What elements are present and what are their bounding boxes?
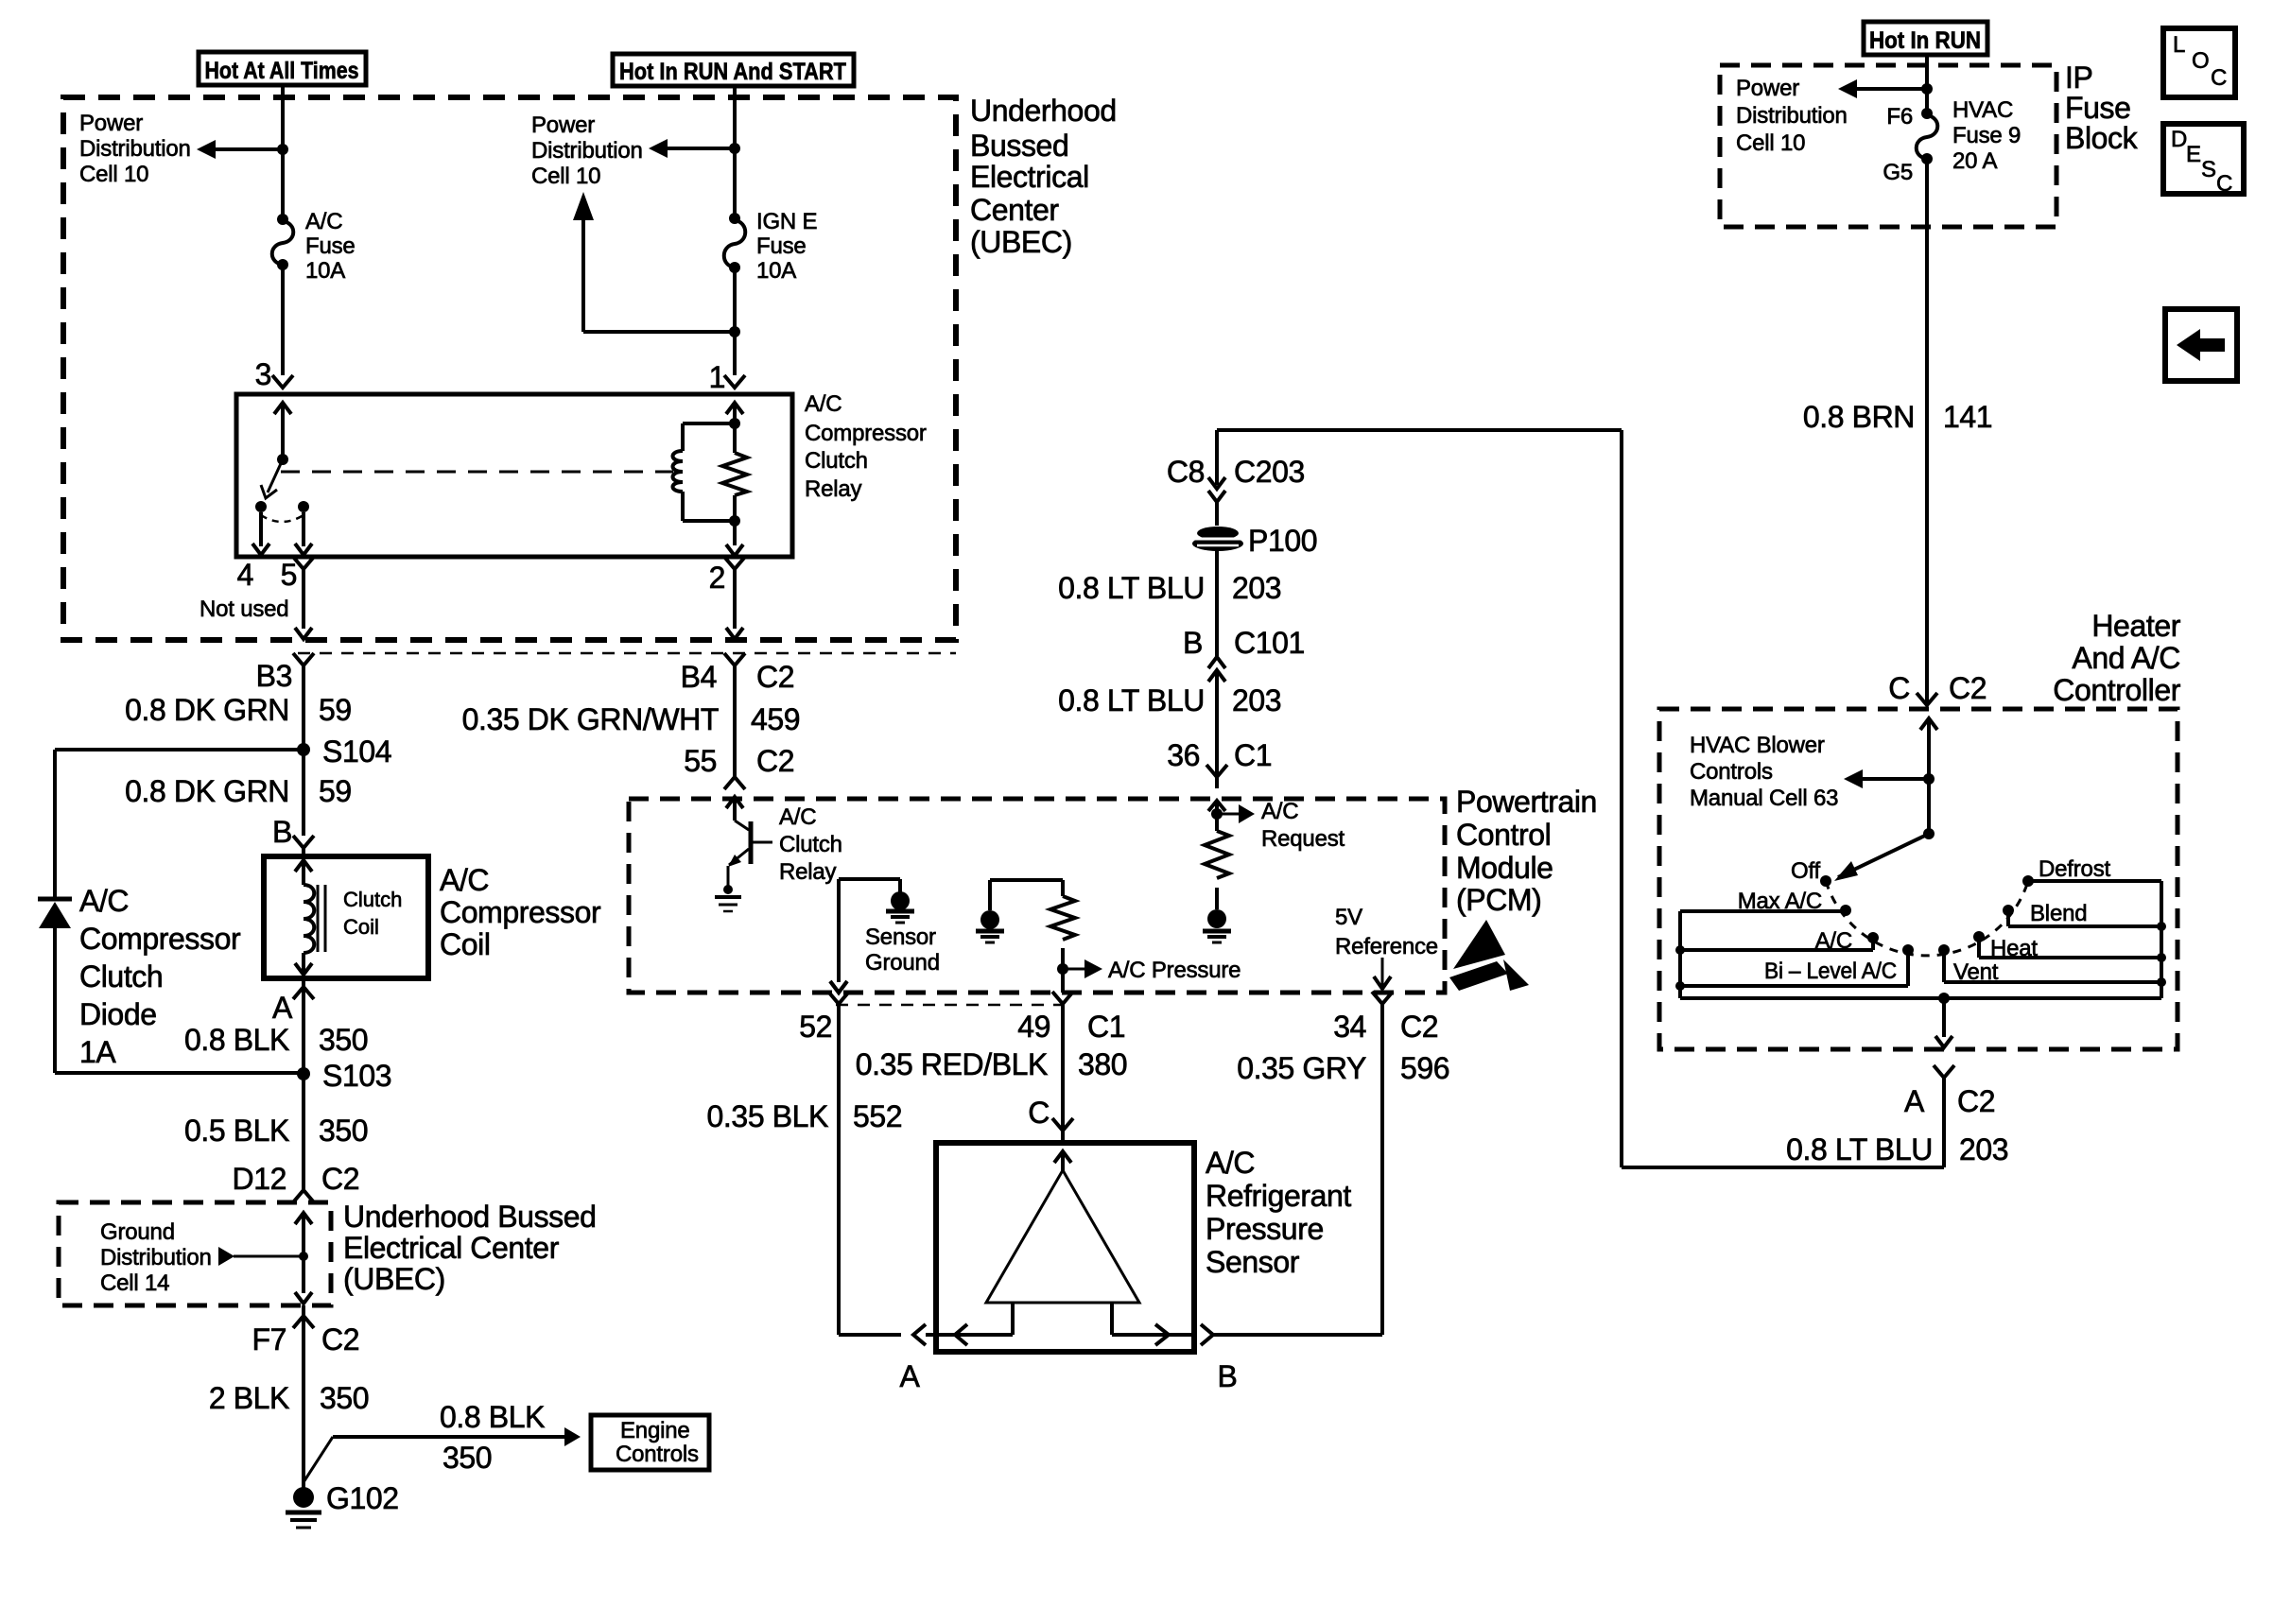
- svg-text:Power: Power: [79, 111, 143, 136]
- svg-text:Center: Center: [970, 193, 1059, 227]
- fuse IGN E Fuse 10A: [724, 213, 746, 273]
- Engine Controls box: [591, 1415, 709, 1470]
- Sensor Ground label: [865, 924, 940, 976]
- svg-text:Clutch: Clutch: [343, 888, 402, 911]
- pin C C2 labels (controller): [1888, 671, 1987, 705]
- pin C connector chevron (controller): [1917, 693, 1937, 705]
- pin 3 connector chevron: [272, 375, 293, 388]
- svg-text:0.8 DK GRN: 0.8 DK GRN: [125, 774, 289, 808]
- svg-text:G5: G5: [1883, 160, 1913, 185]
- relay box A/C Compressor Clutch Relay: [236, 394, 792, 557]
- svg-text:A/C: A/C: [1206, 1146, 1255, 1180]
- svg-text:C101: C101: [1234, 626, 1305, 660]
- relay switch input arrow (pin 3 inside): [274, 403, 291, 459]
- diode A/C Compressor Clutch Diode 1A: [38, 899, 72, 928]
- svg-text:S104: S104: [322, 734, 391, 769]
- svg-text:4: 4: [237, 558, 253, 592]
- fuse A/C Fuse 10A: [272, 214, 294, 270]
- svg-text:52: 52: [799, 1010, 832, 1044]
- sensor element triangle: [986, 1170, 1139, 1335]
- ground at A/C pressure divider: [976, 910, 1004, 942]
- svg-text:0.8 BLK: 0.8 BLK: [440, 1400, 545, 1434]
- svg-text:A: A: [900, 1359, 921, 1393]
- legend DESC box: [2163, 124, 2244, 197]
- svg-text:Hot In RUN: Hot In RUN: [1869, 27, 1981, 54]
- wire label 0.8 DK GRN 59 (lower): [125, 774, 352, 808]
- 5V reference output arrow: [1374, 958, 1391, 989]
- svg-text:G102: G102: [326, 1481, 399, 1515]
- ground at A/C request: [1203, 888, 1231, 942]
- svg-text:And A/C: And A/C: [2072, 641, 2180, 675]
- pin 49 C1 labels: [1017, 1010, 1125, 1044]
- svg-text:B4: B4: [681, 660, 717, 694]
- svg-text:Compressor: Compressor: [805, 421, 927, 446]
- pin C8 C203 labels: [1167, 455, 1305, 489]
- svg-text:350: 350: [320, 1381, 369, 1415]
- svg-text:Distribution: Distribution: [531, 138, 643, 164]
- svg-text:Refrigerant: Refrigerant: [1206, 1179, 1351, 1213]
- node: power distribution tap (second): [729, 143, 740, 154]
- pin B4 connector chevron: [724, 653, 745, 665]
- pin B C101 labels: [1183, 626, 1305, 660]
- svg-text:Compressor: Compressor: [440, 895, 601, 929]
- svg-text:C2: C2: [321, 1322, 359, 1356]
- svg-text:O: O: [2192, 48, 2209, 74]
- wire B4 to pin 55: [733, 665, 737, 777]
- svg-text:Heater: Heater: [2091, 609, 2180, 643]
- sensor ground wire: [830, 879, 900, 993]
- switch ladder Heat line: [1979, 937, 2161, 958]
- switch wiper arrow to Off: [1834, 834, 1929, 881]
- relay coil input arrow (pin 1 inside): [726, 403, 743, 423]
- switch position dot Max A/C: [1840, 905, 1851, 916]
- svg-text:C2: C2: [1957, 1084, 1995, 1118]
- node power distribution tap (IP): [1921, 83, 1933, 95]
- svg-text:(PCM): (PCM): [1456, 883, 1541, 917]
- switch position dot Vent: [1938, 944, 1950, 956]
- svg-text:350: 350: [442, 1441, 492, 1475]
- svg-text:Cell 10: Cell 10: [79, 162, 148, 187]
- switch position dot Off: [1820, 875, 1831, 887]
- svg-text:Clutch: Clutch: [79, 959, 163, 993]
- svg-text:Fuse: Fuse: [756, 233, 807, 259]
- relay switch moving contact arm: [261, 459, 283, 498]
- svg-text:5V: 5V: [1335, 905, 1362, 930]
- wire label 2 BLK 350: [209, 1381, 369, 1415]
- svg-text:0.8 LT BLU: 0.8 LT BLU: [1786, 1132, 1933, 1166]
- Underhood Bussed Electrical Center (UBEC) label: [970, 94, 1117, 259]
- svg-text:Cell 10: Cell 10: [1736, 130, 1805, 156]
- svg-text:Powertrain: Powertrain: [1456, 785, 1597, 819]
- node relay coil bottom: [729, 515, 740, 527]
- svg-text:Power: Power: [531, 112, 595, 138]
- svg-text:C: C: [2216, 171, 2232, 197]
- PCM connector C1 face line: [836, 1004, 1065, 1007]
- svg-text:Block: Block: [2065, 121, 2139, 155]
- svg-text:Manual Cell 63: Manual Cell 63: [1690, 786, 1838, 811]
- svg-text:S: S: [2201, 157, 2216, 182]
- svg-text:Sensor: Sensor: [1206, 1245, 1300, 1279]
- wire label 0.35 DK GRN/WHT 459: [462, 702, 801, 736]
- wire C101 to pin 36: [1215, 670, 1219, 777]
- svg-text:Distribution: Distribution: [1736, 103, 1848, 129]
- fuse HVAC Fuse 9 20 A: [1917, 108, 1938, 164]
- svg-text:Diode: Diode: [79, 997, 157, 1031]
- pin 5 connector chevron: [293, 557, 314, 580]
- sensor input arrow from pin C: [1054, 1151, 1071, 1172]
- svg-text:Cell 10: Cell 10: [531, 164, 600, 189]
- relay coil parallel resistor: [722, 423, 747, 521]
- pin 49 connector chevron: [1052, 992, 1073, 1015]
- resistor A/C request pull: [1205, 831, 1229, 878]
- svg-text:Distribution: Distribution: [79, 136, 191, 162]
- switch ladder Max A/C line: [1680, 909, 1843, 913]
- switch ladder left rail: [1675, 911, 1685, 998]
- svg-text:Hot In RUN And START: Hot In RUN And START: [619, 59, 846, 85]
- IP fuse block dashed box: [1720, 65, 2056, 227]
- svg-text:203: 203: [1232, 683, 1281, 717]
- heater and A/C controller dashed box: [1659, 709, 2178, 1049]
- switch ladder right rail: [2157, 881, 2166, 998]
- wire from Hot At All Times down to pin 3: [281, 85, 285, 219]
- PCM dashed box: [629, 799, 1445, 993]
- switch ladder Bi-Level line: [1680, 950, 1908, 986]
- svg-text:49: 49: [1017, 1010, 1050, 1044]
- pin 1 connector chevron: [724, 375, 745, 388]
- svg-text:Clutch: Clutch: [779, 832, 842, 857]
- svg-text:Pressure: Pressure: [1206, 1212, 1324, 1246]
- wire arrow to Power Distribution Cell 10 (left): [197, 140, 283, 159]
- wire label 0.8 LT BLU 203 (lower): [1058, 683, 1281, 717]
- wire arrow to Power Distribution Cell 10 (IP): [1838, 79, 1927, 98]
- svg-text:F7: F7: [252, 1322, 286, 1356]
- ground at sensor ground: [886, 891, 914, 923]
- Power Distribution Cell 10 text (second): [531, 112, 643, 189]
- svg-text:C: C: [2211, 65, 2227, 91]
- pin 52 exit arrow: [830, 981, 847, 993]
- node A/C pressure: [1057, 948, 1068, 993]
- pin B3 connector chevron: [293, 653, 314, 665]
- svg-text:Cell 14: Cell 14: [100, 1270, 169, 1296]
- svg-text:Electrical Center: Electrical Center: [343, 1231, 560, 1265]
- ground G102: [286, 1481, 399, 1528]
- arrow A/C Request: [1217, 799, 1345, 852]
- svg-text:Ground: Ground: [100, 1219, 175, 1245]
- controller input arrow: [1920, 718, 1937, 834]
- connector C203 double chevron: [1208, 477, 1225, 526]
- svg-text:C2: C2: [1400, 1010, 1438, 1044]
- A/C refrigerant pressure sensor box: [936, 1143, 1194, 1352]
- contact 4 wire with arrow: [252, 512, 269, 555]
- pin A connector chevron: [293, 978, 314, 999]
- HVAC Fuse 9 20 A label: [1952, 97, 2021, 174]
- switch position dot Heat: [1973, 931, 1985, 942]
- pin C connector chevron (sensor): [1052, 1118, 1073, 1143]
- wire label 0.8 BLK 350 (engine controls): [440, 1400, 545, 1475]
- A/C Refrigerant Pressure Sensor label: [1206, 1146, 1351, 1279]
- pin F7 connector chevron: [293, 1305, 314, 1328]
- svg-text:B3: B3: [256, 659, 292, 693]
- wire 49 to sensor pin C: [1061, 1004, 1065, 1129]
- svg-text:Control: Control: [1456, 818, 1551, 852]
- svg-text:A: A: [272, 991, 293, 1025]
- switch ladder A/C line: [1680, 938, 1873, 950]
- svg-text:Sensor: Sensor: [865, 924, 936, 950]
- IGN E Fuse 10A label: [756, 209, 817, 284]
- wire pin 5 down through UBEC edge: [295, 569, 312, 639]
- legend back arrow box: [2165, 309, 2237, 381]
- svg-text:Clutch: Clutch: [805, 448, 868, 474]
- svg-text:59: 59: [319, 774, 352, 808]
- svg-text:B: B: [272, 815, 292, 849]
- A/C Compressor Clutch Relay label: [805, 391, 927, 502]
- svg-text:10A: 10A: [756, 258, 796, 284]
- svg-text:E: E: [2186, 142, 2201, 167]
- svg-text:0.5 BLK: 0.5 BLK: [184, 1114, 289, 1148]
- connector C101 double chevron: [1208, 657, 1225, 700]
- svg-text:0.8 DK GRN: 0.8 DK GRN: [125, 693, 289, 727]
- relay coil winding branch: [673, 423, 736, 521]
- node: power distribution tap (left): [277, 144, 288, 155]
- svg-text:Compressor: Compressor: [79, 922, 241, 956]
- svg-text:C8: C8: [1167, 455, 1205, 489]
- svg-text:C: C: [1028, 1096, 1050, 1130]
- switch ladder Blend line: [2008, 910, 2161, 926]
- svg-text:Electrical: Electrical: [970, 160, 1089, 194]
- switch position dot Blend: [2003, 905, 2014, 916]
- relay actuation dashed link: [281, 471, 673, 474]
- svg-text:596: 596: [1400, 1051, 1449, 1085]
- svg-text:0.35 RED/BLK: 0.35 RED/BLK: [856, 1047, 1048, 1081]
- legend LOC box: [2163, 28, 2235, 97]
- svg-text:Engine: Engine: [620, 1418, 690, 1443]
- wire pin 36 into PCM: [1208, 801, 1225, 831]
- wire branch to Engine Controls: [304, 1427, 581, 1482]
- svg-text:A/C: A/C: [805, 391, 842, 417]
- header label Hot At All Times: [199, 52, 366, 85]
- pin 55 connector chevron: [724, 777, 745, 789]
- switch position dot Bi-Level A/C: [1902, 944, 1914, 956]
- switch position dot A/C: [1867, 932, 1879, 943]
- svg-text:55: 55: [684, 744, 717, 778]
- node relay coil top: [729, 418, 740, 429]
- wire 52 to sensor pin A: [839, 1004, 901, 1335]
- pin 2 connector chevron: [724, 557, 745, 580]
- splice S103: [297, 1059, 391, 1093]
- svg-text:C203: C203: [1234, 455, 1305, 489]
- svg-text:A/C: A/C: [779, 804, 816, 830]
- IP Fuse Block label: [2065, 60, 2139, 155]
- svg-text:Controls: Controls: [1690, 759, 1773, 785]
- svg-text:C1: C1: [1234, 738, 1272, 772]
- svg-text:203: 203: [1232, 571, 1281, 605]
- svg-text:Coil: Coil: [440, 927, 491, 961]
- pin A connector chevron (sensor): [913, 1324, 936, 1345]
- pin B connector chevron (sensor): [1201, 1324, 1225, 1345]
- svg-text:Bussed: Bussed: [970, 129, 1068, 163]
- svg-text:Request: Request: [1261, 826, 1345, 852]
- svg-text:D: D: [2171, 127, 2187, 152]
- svg-text:(UBEC): (UBEC): [343, 1262, 445, 1296]
- A/C Fuse 10A label: [305, 209, 356, 284]
- svg-text:Fuse: Fuse: [2065, 91, 2131, 125]
- relay contact 5: [298, 501, 309, 512]
- arrow A/C Pressure: [1063, 958, 1241, 983]
- svg-text:350: 350: [319, 1023, 368, 1057]
- pin B connector chevron: [293, 836, 314, 856]
- pin B4 C2 labels: [681, 660, 794, 694]
- pin 55 C2 labels: [684, 744, 794, 778]
- relay switch common node: [277, 454, 288, 465]
- svg-text:A/C: A/C: [79, 884, 129, 918]
- svg-text:0.35 DK GRN/WHT: 0.35 DK GRN/WHT: [462, 702, 719, 736]
- svg-text:B: B: [1183, 626, 1203, 660]
- ground box entry arrow: [295, 1213, 312, 1304]
- header label Hot In RUN And START: [613, 54, 854, 86]
- Underhood Bussed Electrical Center (UBEC) ground label: [343, 1200, 597, 1296]
- ESD sensitive symbol: [1449, 920, 1529, 991]
- wire S104 to coil pin B: [302, 750, 305, 836]
- Power Distribution Cell 10 text (IP): [1736, 76, 1848, 156]
- Powertrain Control Module (PCM) label: [1456, 785, 1597, 917]
- svg-text:Distribution: Distribution: [100, 1245, 212, 1270]
- wire label 0.5 BLK 350: [184, 1114, 368, 1148]
- wire P100 to C101: [1215, 550, 1219, 656]
- svg-text:203: 203: [1959, 1132, 2008, 1166]
- wire up-arrow branch to Cell 10: [573, 192, 740, 337]
- sensor adjustment double arrow: [936, 1324, 1191, 1345]
- svg-text:C: C: [1888, 671, 1910, 705]
- svg-text:34: 34: [1333, 1010, 1366, 1044]
- svg-text:(UBEC): (UBEC): [970, 225, 1072, 259]
- svg-text:Module: Module: [1456, 851, 1553, 885]
- node ground distribution tap: [299, 1252, 308, 1261]
- wire label 0.35 BLK 552: [707, 1099, 903, 1133]
- svg-text:Power: Power: [1736, 76, 1799, 101]
- splice S104: [297, 734, 391, 769]
- header label Hot In RUN: [1864, 22, 1987, 55]
- node switch wiper feed: [1923, 828, 1935, 839]
- svg-text:Not used: Not used: [200, 596, 288, 622]
- wire Hot In RUN down to fuse F6: [1925, 55, 1929, 113]
- pin A C2 labels (controller): [1904, 1084, 1995, 1118]
- A/C compressor coil box: [264, 856, 428, 978]
- HVAC Blower Controls Manual Cell 63 text: [1690, 733, 1838, 811]
- grommet P100: [1192, 524, 1317, 558]
- pin F7 C2 labels: [252, 1322, 359, 1356]
- svg-text:Underhood: Underhood: [970, 94, 1117, 128]
- pin A connector chevron (controller): [1934, 1065, 1954, 1089]
- wire B3 to S104: [302, 665, 305, 750]
- switch ladder Defrost line: [2028, 879, 2161, 883]
- svg-text:L: L: [2173, 32, 2185, 58]
- svg-text:A/C: A/C: [440, 863, 489, 897]
- wire label 0.8 DK GRN 59 (upper): [125, 693, 352, 727]
- wire G5 down to controller pin C: [1925, 159, 1929, 703]
- pin 52 connector chevron: [828, 992, 849, 1015]
- wire 34 to sensor pin B: [1225, 1004, 1382, 1335]
- svg-text:C1: C1: [1087, 1010, 1125, 1044]
- svg-text:S103: S103: [322, 1059, 391, 1093]
- wire down to C8: [1215, 430, 1219, 485]
- svg-text:459: 459: [751, 702, 800, 736]
- svg-text:Defrost: Defrost: [2039, 856, 2110, 882]
- svg-text:552: 552: [853, 1099, 902, 1133]
- switch ladder bottom rail: [1680, 993, 2161, 1004]
- wire S103 to D12: [302, 1074, 305, 1179]
- transistor A/C clutch relay driver: [726, 797, 772, 887]
- wire label 0.8 LT BLU 203 (upper): [1058, 571, 1281, 605]
- svg-text:Controller: Controller: [2053, 673, 2180, 707]
- svg-text:0.8 LT BLU: 0.8 LT BLU: [1058, 571, 1205, 605]
- wire arrow to HVAC Blower Controls: [1844, 769, 1929, 788]
- pin 34 connector chevron: [1372, 992, 1393, 1015]
- svg-text:A/C: A/C: [305, 209, 342, 234]
- wire label 0.8 BRN 141: [1803, 400, 1992, 434]
- Power Distribution Cell 10 text (left): [79, 111, 191, 187]
- wire label 0.35 RED/BLK 380: [856, 1047, 1128, 1081]
- wire label 0.35 GRY 596: [1237, 1051, 1449, 1085]
- svg-text:Ground: Ground: [865, 950, 940, 976]
- wire LT BLU net top run: [1217, 430, 1944, 1167]
- A/C compressor clutch diode branch wires: [55, 750, 304, 1073]
- UBEC connector C2 face line (left): [298, 652, 956, 655]
- svg-text:IGN E: IGN E: [756, 209, 817, 234]
- wire label 0.8 LT BLU 203 (controller): [1786, 1132, 2008, 1166]
- switch position dot Defrost: [2022, 875, 2034, 887]
- svg-text:Reference: Reference: [1335, 934, 1438, 959]
- relay coil output arrow to pin 2: [726, 521, 743, 556]
- svg-text:Fuse 9: Fuse 9: [1952, 123, 2021, 148]
- pin 36 C1 labels: [1167, 738, 1272, 772]
- pin 36 connector chevron: [1206, 765, 1227, 788]
- svg-text:HVAC: HVAC: [1952, 97, 2013, 123]
- svg-text:1: 1: [709, 360, 725, 394]
- svg-text:59: 59: [319, 693, 352, 727]
- svg-text:0.35 BLK: 0.35 BLK: [707, 1099, 829, 1133]
- svg-text:2 BLK: 2 BLK: [209, 1381, 289, 1415]
- svg-text:10A: 10A: [305, 258, 345, 284]
- svg-text:Bi – Level A/C: Bi – Level A/C: [1764, 959, 1897, 984]
- svg-text:Coil: Coil: [343, 915, 379, 939]
- dashed arc between contacts 4 and 5: [261, 515, 304, 522]
- wire F7 to G102: [302, 1316, 305, 1492]
- svg-text:C2: C2: [756, 660, 794, 694]
- wire coil pin A to S103: [302, 987, 305, 1074]
- wire label 0.8 BLK 350: [184, 1023, 368, 1057]
- svg-text:B: B: [1218, 1359, 1238, 1393]
- svg-text:C2: C2: [756, 744, 794, 778]
- svg-text:Blend: Blend: [2030, 901, 2087, 926]
- contact 5 wire with arrow: [295, 512, 312, 555]
- ground at transistor emitter: [715, 885, 741, 911]
- A/C Compressor Coil label: [440, 863, 601, 961]
- clutch coil element: [295, 860, 325, 975]
- svg-text:Controls: Controls: [616, 1442, 699, 1467]
- UBEC dashed enclosure box: [63, 97, 956, 640]
- svg-text:C2: C2: [321, 1162, 359, 1196]
- relay contact 4: [255, 501, 267, 512]
- A/C Clutch Relay label: [779, 804, 842, 885]
- svg-text:D12: D12: [232, 1162, 286, 1196]
- svg-text:0.8 LT BLU: 0.8 LT BLU: [1058, 683, 1205, 717]
- svg-text:Relay: Relay: [805, 476, 862, 502]
- svg-text:0.35 GRY: 0.35 GRY: [1237, 1051, 1366, 1085]
- svg-text:350: 350: [319, 1114, 368, 1148]
- svg-text:2: 2: [709, 561, 725, 595]
- svg-text:1A: 1A: [79, 1035, 116, 1069]
- 5V Reference label: [1335, 905, 1438, 959]
